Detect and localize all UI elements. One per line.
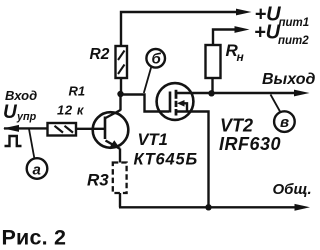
- svg-text:а: а: [33, 162, 41, 179]
- svg-text:VT1: VT1: [138, 131, 168, 149]
- resistor R2: [116, 46, 128, 78]
- svg-text:пит1: пит1: [279, 17, 310, 29]
- node dot collector/R2/gate junction: [117, 91, 123, 97]
- VT1 emitter arrowhead: [110, 140, 120, 148]
- svg-text:R3: R3: [87, 171, 109, 190]
- R2 power slashes: [118, 51, 125, 75]
- VT2 source lead right then down to ground: [177, 112, 209, 208]
- transistor VT1 circle: [93, 112, 129, 148]
- wire R2 bottom to node: [120, 78, 122, 94]
- ground rail Obsch: [119, 206, 295, 208]
- wire +Upit1 rail from R2 top to arrow: [121, 12, 237, 46]
- node dot source/ground junction: [205, 204, 211, 210]
- wire R1 to VT1 base: [76, 128, 104, 130]
- node v leader line: [271, 95, 281, 113]
- arrow +Upit1: [236, 9, 252, 16]
- svg-text:б: б: [152, 51, 162, 68]
- svg-text:VT2: VT2: [220, 116, 253, 136]
- VT2 channel source segment: [175, 109, 178, 116]
- node dot Rn/output junction: [208, 90, 214, 96]
- wire VT1 emitter down to R3: [119, 149, 121, 163]
- svg-text:U: U: [3, 102, 18, 123]
- node b circle: [146, 49, 165, 68]
- VT1 emitter diagonal: [106, 141, 121, 149]
- svg-text:IRF630: IRF630: [219, 134, 281, 154]
- arrow +Upit2: [235, 26, 250, 33]
- wire input to R1: [4, 127, 48, 129]
- svg-text:R2: R2: [90, 46, 110, 63]
- transistor VT2 circle: [157, 83, 194, 120]
- VT2 substrate link to source: [184, 103, 187, 111]
- wire R3 bottom to ground: [119, 193, 121, 207]
- svg-text:12 к: 12 к: [57, 103, 85, 118]
- svg-text:R1: R1: [69, 84, 86, 99]
- VT1 collector diagonal: [106, 110, 121, 118]
- VT2 channel drain segment: [175, 90, 178, 99]
- svg-text:+U: +U: [254, 22, 281, 44]
- node a circle: [27, 158, 48, 179]
- svg-text:Вход: Вход: [5, 88, 37, 103]
- arrow ground: [295, 204, 311, 211]
- VT2 substrate arrow: [177, 100, 185, 107]
- resistor Rn: [206, 45, 221, 78]
- VT2 channel substrate segment: [175, 101, 178, 107]
- wire VT1 collector up to node: [119, 94, 121, 111]
- VT2 drain lead to output: [177, 92, 295, 94]
- svg-text:упр: упр: [16, 111, 37, 123]
- node a leader line: [29, 129, 34, 158]
- svg-text:КТ645Б: КТ645Б: [134, 151, 198, 169]
- node b leader line: [144, 67, 152, 93]
- VT2 gate bar: [169, 92, 172, 113]
- wire Rn bottom to output line: [211, 78, 213, 94]
- R1 power slashes: [55, 126, 74, 133]
- resistor R1: [48, 123, 77, 136]
- wire +Upit2 rail from Rn top to arrow: [213, 30, 236, 46]
- wire gate: node to VT2 gate: [121, 95, 170, 112]
- arrow input (points left): [3, 125, 19, 132]
- svg-text:пит2: пит2: [278, 35, 309, 47]
- resistor R3 (dashed): [113, 163, 127, 194]
- node v circle: [274, 111, 295, 132]
- arrow output: [294, 90, 310, 97]
- svg-text:в: в: [280, 114, 289, 131]
- svg-text:Общ.: Общ.: [273, 181, 312, 198]
- VT1 base bar: [104, 117, 107, 140]
- pulse symbol: [5, 136, 22, 146]
- svg-text:Выход: Выход: [262, 71, 315, 88]
- svg-text:Рис. 2: Рис. 2: [2, 226, 67, 250]
- svg-text:н: н: [237, 50, 245, 64]
